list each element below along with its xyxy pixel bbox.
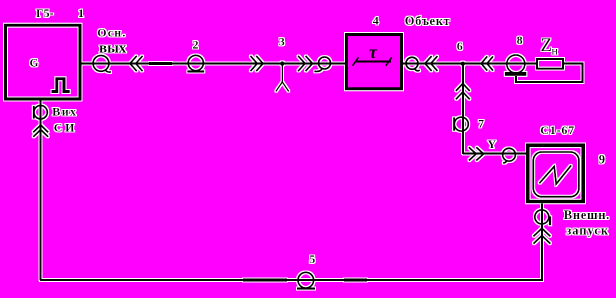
- svg-text:3: 3: [279, 34, 285, 48]
- connector tail (main output): [105, 70, 111, 72]
- wire: branch from node 6 down to Y line: [462, 64, 464, 154]
- connector tail (Y input): [503, 161, 507, 163]
- connector: plug before object box: [319, 57, 331, 69]
- wire: main horizontal bus y=63.5 from generator to load: [81, 63, 537, 65]
- pulse symbol inside generator: [52, 79, 70, 92]
- svg-text:СИ: СИ: [54, 121, 77, 135]
- svg-text:2: 2: [193, 38, 199, 52]
- node 3 junction dot: [280, 61, 284, 65]
- connector side bar (external trigger): [549, 216, 551, 225]
- svg-text:Г5-: Г5-: [36, 6, 54, 20]
- arrow: upward double chevron on sync line: [33, 125, 48, 137]
- svg-text:4: 4: [373, 14, 379, 28]
- svg-text:5: 5: [309, 252, 315, 266]
- arrow: upward double chevron on trigger line: [533, 228, 550, 243]
- svg-text:1: 1: [78, 6, 84, 20]
- connector: external trigger: [535, 210, 549, 224]
- svg-text:Вих: Вих: [52, 104, 77, 118]
- svg-text:Объект: Объект: [405, 14, 450, 28]
- connector 7 circle: [454, 117, 468, 131]
- svg-text:8: 8: [517, 33, 523, 47]
- connector 8 circle: [507, 55, 525, 73]
- arrow: left double chevron after main output: [130, 56, 143, 71]
- svg-text:Внешн.: Внешн.: [564, 208, 610, 222]
- arrow: left double chevron before load connector: [481, 56, 493, 70]
- svg-text:τ: τ: [369, 42, 378, 62]
- generator box G1 (Г5-): [6, 25, 81, 99]
- svg-text:9: 9: [599, 153, 605, 167]
- connector: sync output (Вих СИ): [34, 106, 47, 119]
- svg-text:G: G: [30, 58, 39, 70]
- arrow: right double chevron on Y line: [469, 147, 484, 160]
- oscilloscope box 9 outer (С1-67): [528, 145, 583, 201]
- wire: bottom sync bus: [40, 279, 543, 281]
- arrow: right double chevron before node 3: [250, 56, 263, 71]
- connector tail (plug before object box): [314, 69, 322, 72]
- wire: thick cable segment bottom left: [243, 279, 287, 282]
- wire: thick cable segment on main bus: [149, 62, 172, 65]
- connector 2 socket circle: [188, 55, 203, 70]
- svg-text:Осн.: Осн.: [97, 26, 126, 40]
- wire: external trigger drop below oscilloscope: [541, 203, 543, 280]
- svg-text:Z: Z: [541, 35, 553, 56]
- svg-text:н: н: [552, 44, 559, 58]
- connector: main output of generator: [93, 56, 109, 72]
- connector 7 side bar: [453, 117, 455, 130]
- svg-text:С1-67: С1-67: [540, 123, 575, 137]
- open-end fork below node 3: [276, 82, 289, 92]
- sawtooth waveform inside oscilloscope: [539, 165, 571, 184]
- wire: stub below node 3: [281, 64, 283, 82]
- connector 5 circle: [298, 272, 314, 288]
- object box 4 (Объект): [347, 35, 402, 89]
- connector 2 base bar: [187, 70, 204, 72]
- delay line symbol inside object box: [355, 61, 391, 63]
- svg-text:6: 6: [457, 39, 463, 53]
- resistor Zн box: [537, 59, 563, 69]
- wire: thick cable segment bottom right: [344, 279, 367, 282]
- connector 8 thick base bar: [505, 72, 527, 76]
- svg-text:Y: Y: [488, 137, 497, 151]
- connector 5 base bar: [297, 288, 315, 290]
- arrow: left double chevron after object box: [425, 56, 438, 71]
- node 6 junction dot: [461, 62, 465, 66]
- connector: Y input plug: [503, 148, 516, 161]
- arrow: right double chevron after node 3: [298, 56, 313, 71]
- connector side bar (sync output): [33, 106, 35, 119]
- connector: plug after object box: [406, 57, 418, 69]
- wire: horizontal Y-input line: [463, 153, 526, 155]
- svg-text:вых: вых: [99, 41, 127, 57]
- svg-text:запуск: запуск: [566, 223, 609, 237]
- oscilloscope inner rounded screen: [533, 152, 579, 197]
- svg-text:7: 7: [478, 117, 484, 131]
- wire: sync output drop from generator: [40, 100, 42, 280]
- connector tail (plug after object box): [415, 69, 420, 71]
- arrow: upward double chevron on node 6 branch: [456, 84, 470, 100]
- wire: loop from resistor back to connector 8 shield: [516, 64, 583, 83]
